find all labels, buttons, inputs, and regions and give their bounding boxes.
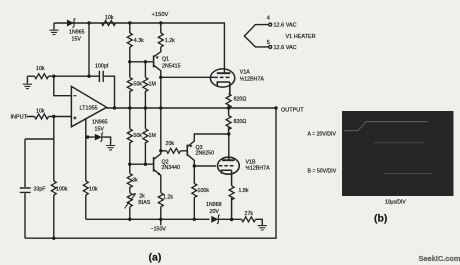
svg-text:(a): (a) (149, 252, 162, 264)
svg-text:Q1: Q1 (162, 57, 169, 63)
svg-text:+150V: +150V (152, 12, 169, 18)
svg-text:½12BH7A: ½12BH7A (246, 165, 271, 172)
svg-text:10k: 10k (105, 15, 114, 21)
svg-text:LT1055: LT1055 (80, 106, 98, 112)
svg-text:15V: 15V (72, 37, 82, 43)
svg-text:−150V: −150V (151, 227, 167, 233)
svg-text:SeekIC.com: SeekIC.com (419, 254, 460, 263)
svg-text:10k: 10k (36, 66, 45, 72)
svg-text:BIAS: BIAS (138, 200, 151, 206)
svg-text:15V: 15V (95, 127, 105, 133)
svg-text:2k: 2k (139, 194, 145, 200)
svg-text:12.6 VAC: 12.6 VAC (274, 45, 297, 51)
svg-text:50k: 50k (134, 133, 143, 139)
svg-text:10k: 10k (36, 109, 45, 115)
svg-text:2N5415: 2N5415 (162, 64, 181, 70)
svg-text:50k: 50k (134, 82, 143, 88)
svg-text:10μs/DIV: 10μs/DIV (385, 200, 406, 206)
svg-text:2N6250: 2N6250 (196, 151, 215, 157)
svg-text:(b): (b) (374, 212, 387, 224)
svg-text:1N968: 1N968 (206, 202, 222, 208)
svg-text:100k: 100k (56, 187, 68, 193)
svg-text:1M: 1M (149, 133, 156, 139)
svg-text:1N965: 1N965 (69, 30, 85, 36)
svg-text:820Ω: 820Ω (234, 97, 247, 103)
svg-text:20V: 20V (210, 209, 220, 215)
svg-text:3k: 3k (132, 178, 138, 184)
svg-text:33pF: 33pF (34, 187, 47, 193)
svg-text:27k: 27k (245, 211, 254, 217)
svg-text:1M: 1M (149, 82, 156, 88)
svg-text:V1A: V1A (240, 70, 250, 76)
svg-text:½12BH7A: ½12BH7A (240, 76, 265, 83)
svg-text:A = 20V/DIV: A = 20V/DIV (308, 132, 337, 138)
svg-text:100k: 100k (198, 188, 210, 194)
svg-text:2N3440: 2N3440 (162, 165, 181, 171)
svg-text:4: 4 (267, 16, 270, 22)
svg-text:1N965: 1N965 (92, 120, 108, 126)
svg-text:100pf: 100pf (95, 64, 109, 70)
svg-text:12.6 VAC: 12.6 VAC (274, 23, 297, 29)
svg-text:5: 5 (267, 40, 270, 46)
svg-text:B = 50V/DIV: B = 50V/DIV (308, 169, 337, 175)
svg-text:OUTPUT: OUTPUT (281, 108, 304, 114)
svg-text:INPUT: INPUT (11, 115, 28, 121)
svg-text:V1 HEATER: V1 HEATER (286, 34, 316, 40)
svg-text:4.3k: 4.3k (134, 38, 144, 44)
svg-text:20k: 20k (166, 141, 175, 147)
svg-text:820Ω: 820Ω (234, 119, 247, 125)
svg-text:1.2k: 1.2k (165, 38, 175, 44)
svg-text:1.8k: 1.8k (239, 188, 249, 194)
svg-text:1.2k: 1.2k (163, 195, 173, 201)
svg-text:10k: 10k (89, 187, 98, 193)
